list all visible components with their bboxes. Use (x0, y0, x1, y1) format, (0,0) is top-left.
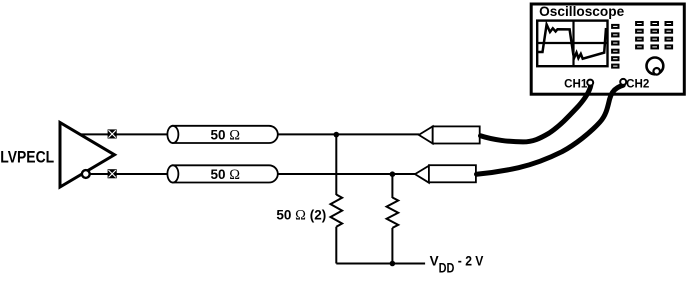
wire R1 lower (335, 227, 337, 264)
softkey column (6 buttons right of screen) (612, 25, 618, 68)
CH1 jack (587, 80, 593, 86)
CH2 jack (620, 79, 626, 85)
oscilloscope screen (537, 21, 607, 67)
wire R2 lower (391, 228, 393, 264)
connector symbol top (boxed X) (108, 129, 117, 138)
screen waveform trace (538, 25, 606, 59)
node B junction dot (390, 171, 396, 177)
screen graticule (537, 21, 607, 67)
resistor R1 (50 ohm) (330, 195, 342, 227)
svg-text:CH1: CH1 (564, 77, 588, 90)
svg-text:Oscilloscope: Oscilloscope (539, 4, 624, 19)
button grid (3 x 4) (636, 22, 672, 48)
probe P1 (CH1 probe) (419, 126, 480, 143)
buffer U1 (LVPECL driver) (60, 123, 115, 188)
svg-text:50 Ω (2): 50 Ω (2) (276, 207, 326, 223)
probe P2 (CH2 probe) (415, 165, 476, 183)
cable probe1 to CH1 (481, 86, 591, 142)
transmission line T2 (50 ohm coax, bottom) (167, 165, 277, 182)
knob (647, 58, 664, 75)
knob pointer dot (653, 68, 660, 75)
wire bottom rail (336, 263, 425, 265)
wire top output (81, 133, 420, 135)
svg-text:50 Ω: 50 Ω (211, 167, 241, 183)
wire vertical from node B (391, 174, 393, 198)
oscilloscope body (531, 4, 684, 94)
inversion bubble (82, 170, 90, 178)
svg-text:CH2: CH2 (626, 77, 649, 90)
node A junction dot (334, 132, 340, 138)
wire vertical from node A (335, 134, 337, 195)
wire bottom output (84, 173, 416, 175)
resistor R2 (50 ohm) (387, 198, 399, 228)
node C junction dot (390, 261, 396, 267)
connector symbol bottom (boxed X) (108, 169, 117, 178)
cable probe2 to CH2 (477, 85, 624, 174)
svg-text:50 Ω: 50 Ω (211, 128, 241, 144)
transmission line T1 (50 ohm coax, top) (167, 126, 277, 143)
svg-text:LVPECL: LVPECL (0, 149, 54, 167)
